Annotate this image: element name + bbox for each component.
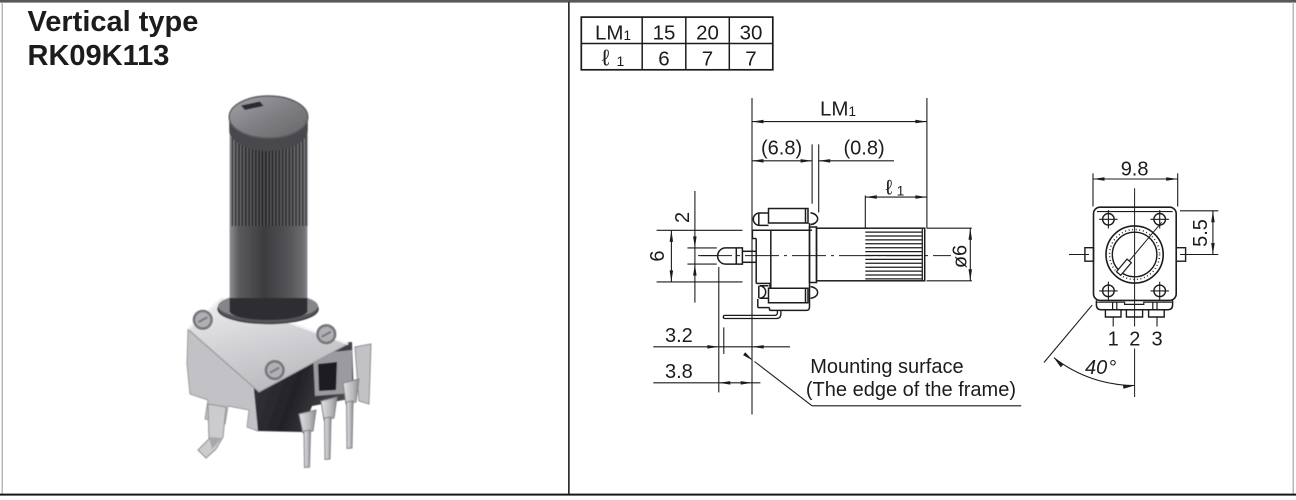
- dimension 5.5: [1212, 211, 1214, 255]
- svg-text:5.5: 5.5: [1190, 219, 1212, 247]
- table: LM1 / l1 values: [581, 17, 773, 70]
- top border: [0, 0, 1296, 3]
- svg-text:Vertical type: Vertical type: [28, 6, 199, 38]
- panel divider: [568, 2, 570, 494]
- front view: bottom skirt: [1096, 300, 1172, 309]
- table row divider: [581, 43, 773, 45]
- svg-text:(0.8): (0.8): [844, 137, 885, 159]
- svg-text:2: 2: [1129, 328, 1140, 350]
- front view: pin stubs: [1105, 310, 1121, 317]
- dimension 9.8: [1093, 178, 1178, 180]
- svg-text:40°: 40°: [1085, 357, 1116, 379]
- svg-text:6: 6: [658, 48, 669, 71]
- side view: extension line LM1 right: [926, 98, 928, 228]
- svg-text:Mounting surface: Mounting surface: [810, 356, 963, 378]
- dimension o6: [927, 227, 972, 229]
- front view: skirt inner line with notch: [1096, 302, 1172, 304]
- dimension l1: [865, 196, 927, 198]
- dimension 2 (peg): [694, 191, 696, 303]
- svg-text:15: 15: [653, 22, 676, 45]
- svg-text:(The edge of the frame): (The edge of the frame): [806, 379, 1016, 401]
- svg-text:3: 3: [1151, 328, 1162, 350]
- svg-text:3.8: 3.8: [665, 361, 693, 383]
- svg-text:RK09K113: RK09K113: [28, 40, 170, 72]
- photo: pins: [299, 410, 316, 433]
- front view: rotor circles: [1106, 226, 1163, 283]
- front view: body square: [1094, 207, 1177, 300]
- side view: frame body outline: [752, 223, 812, 310]
- dimension (6.8): [752, 160, 812, 162]
- dimension (0.8): [819, 160, 894, 162]
- front view: left center stub: [1069, 254, 1089, 256]
- svg-text:20: 20: [696, 22, 719, 45]
- svg-text:ø6: ø6: [949, 245, 971, 268]
- photo: terminal block: [313, 350, 352, 396]
- dimension 40 degrees: [1044, 305, 1092, 362]
- svg-text:(6.8): (6.8): [761, 137, 802, 159]
- svg-text:2: 2: [672, 212, 694, 223]
- leader: mounting surface: [755, 362, 813, 406]
- side view: locating peg (bullet): [718, 248, 757, 264]
- photo: shaft: [230, 112, 308, 312]
- dimension LM1: [752, 121, 927, 123]
- side view: extension line mounting surface: [751, 98, 753, 415]
- side view: extension line l1 left: [864, 196, 866, 228]
- side view: shaft: [817, 228, 925, 281]
- side view: top lug: [753, 209, 817, 226]
- side view: pcb leg strip: [723, 310, 781, 318]
- photo: rivets: [194, 311, 212, 329]
- photo: shaft boss collar: [218, 295, 318, 324]
- svg-text:7: 7: [745, 48, 756, 71]
- front view: side tabs: [1085, 248, 1094, 262]
- left border: [2, 2, 3, 495]
- side view: extension lines 3.2/3.8: [718, 267, 720, 392]
- photo: frame sides: [187, 330, 259, 431]
- front view: slot: [1116, 259, 1131, 275]
- bottom border: [0, 494, 1296, 496]
- side view: bottom lug: [759, 286, 818, 303]
- svg-text:30: 30: [740, 22, 763, 45]
- photo: left leg: [198, 404, 226, 458]
- front view: vertical center line: [1134, 188, 1136, 326]
- photo: mounting plate top: [188, 298, 348, 392]
- front view: inner top edge: [1097, 211, 1173, 213]
- svg-text:1: 1: [1108, 328, 1119, 350]
- front view: extension lines 5.5: [1180, 210, 1218, 212]
- front view: pin bases: [1112, 302, 1114, 310]
- front view: extension lines 9.8: [1092, 173, 1094, 206]
- svg-text:6: 6: [647, 251, 669, 262]
- side view: shaft knurl serrations: [865, 228, 922, 281]
- photo: right leg: [355, 344, 371, 404]
- side view: extension line pair for 0.8: [811, 144, 813, 203]
- right border: [1293, 2, 1294, 495]
- dimension 6 (left): [657, 229, 743, 231]
- photo: shaft dome top: [229, 96, 308, 138]
- side view: flange plate: [810, 227, 817, 283]
- photo: resin body: [250, 342, 354, 432]
- svg-text:3.2: 3.2: [665, 325, 693, 347]
- front view: pin leader lines: [1112, 317, 1114, 327]
- side view: center line: [698, 255, 951, 257]
- dimension 3.2: [653, 346, 790, 348]
- svg-text:7: 7: [702, 48, 713, 71]
- front view: indicator line: [1119, 222, 1162, 273]
- front view: screws: [1103, 214, 1115, 226]
- photo: dome slot: [241, 102, 264, 111]
- dimension 3.8: [653, 382, 760, 384]
- table column dividers: [641, 17, 643, 70]
- svg-text:9.8: 9.8: [1121, 159, 1149, 181]
